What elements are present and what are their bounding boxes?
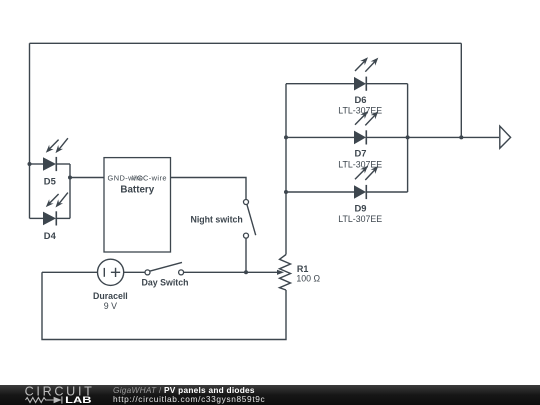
output flag [500,126,511,148]
wire battery feed [70,177,104,179]
svg-text:Night switch: Night switch [191,214,243,224]
svg-text:D4: D4 [44,230,57,241]
svg-text:LTL-307EE: LTL-307EE [338,214,382,224]
svg-text:LAB: LAB [65,395,91,405]
junction at LED bus D9 left [284,190,288,194]
CircuitLab logo [0,385,110,405]
svg-text:D7: D7 [355,148,367,159]
wire D5 anode stub [30,163,44,165]
wire LED right bus [407,84,409,192]
svg-text:9 V: 9 V [104,301,117,311]
voltage source Duracell 9 V [93,259,128,311]
svg-text:R1: R1 [297,264,309,274]
junction at night/day rail [244,270,248,274]
junction at PV output [68,176,72,180]
svg-text:D6: D6 [355,94,367,105]
junction at LED bus D7 right [406,135,410,139]
wire day rail left [42,271,98,273]
photodiode D5 [43,138,68,186]
wire LED left bus [285,84,287,255]
wire PV right bus [69,164,71,218]
svg-text:D5: D5 [44,175,56,186]
svg-text:Battery: Battery [120,185,154,196]
wire battery to night switch [171,178,247,200]
footer bar [0,385,540,405]
LED D9 LTL-307EE [338,166,382,224]
switch Day Switch [142,262,189,287]
LED D7 LTL-307EE [338,111,382,169]
wire D4 cathode stub [56,217,70,219]
svg-text:100 Ω: 100 Ω [296,274,320,284]
wire D9 row [286,191,408,193]
junction at LED bus D7 left [284,135,288,139]
wire bottom return loop [42,272,286,339]
wire night switch to day rail [245,238,247,272]
junction at D5 anode bus [28,162,32,166]
wire left bus [29,43,31,218]
svg-text:Duracell: Duracell [93,291,128,301]
wire D6 row [286,83,408,85]
wire D5 cathode stub [56,163,70,165]
svg-text:VCC-wire: VCC-wire [132,173,167,182]
footer title text [113,386,265,403]
photodiode D4 [43,193,68,241]
switch Night switch [191,200,256,239]
LED D6 LTL-307EE [338,57,382,115]
wire D4 anode stub [30,217,44,219]
wire D7 row [286,136,499,138]
wire top rail [30,42,462,44]
svg-text:D9: D9 [355,202,367,213]
junction at top rail drop [459,135,463,139]
potentiometer R1 100 Ohm [277,255,321,291]
battery block Battery [104,158,171,252]
wire top rail drop [460,43,462,137]
wire source to day switch [124,271,145,273]
wire day switch to R1 wiper [184,271,279,273]
svg-text:Day Switch: Day Switch [142,277,189,287]
